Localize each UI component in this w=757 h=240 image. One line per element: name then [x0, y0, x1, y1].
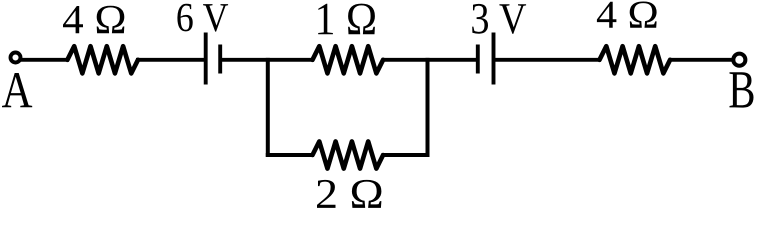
bottom wire left segment	[266, 153, 314, 157]
value label 2 ohm	[317, 180, 381, 208]
node: right junction vertical wire	[426, 58, 430, 157]
battery B2 3V : long plate	[492, 33, 496, 85]
wire battery B2 to R4	[494, 58, 602, 62]
wire A to R1	[21, 58, 69, 62]
node B label	[730, 72, 754, 107]
resistor R3	[313, 141, 384, 168]
terminal A	[11, 53, 21, 63]
wire battery B1 to R2	[220, 58, 314, 62]
terminal B	[733, 54, 745, 66]
value label 1 ohm	[318, 4, 375, 35]
battery B1 6V : long plate	[204, 33, 208, 85]
node: left junction vertical wire	[266, 58, 270, 157]
bottom wire right segment	[382, 153, 430, 157]
wire R2 to battery B2	[382, 58, 478, 62]
battery B1 6V : short plate	[218, 45, 222, 74]
value label 3 V	[472, 4, 526, 34]
wire R4 to B	[669, 58, 733, 62]
value label 4 ohm (left)	[63, 6, 124, 33]
battery B2 3V : short plate	[476, 45, 480, 74]
value label 6 V	[177, 4, 228, 32]
node A label	[2, 73, 32, 107]
wire R1 to battery B1	[136, 58, 204, 62]
value label 4 ohm (right)	[597, 2, 657, 28]
resistor R1	[67, 46, 138, 73]
resistor R4	[600, 46, 671, 73]
resistor R2	[313, 46, 384, 73]
